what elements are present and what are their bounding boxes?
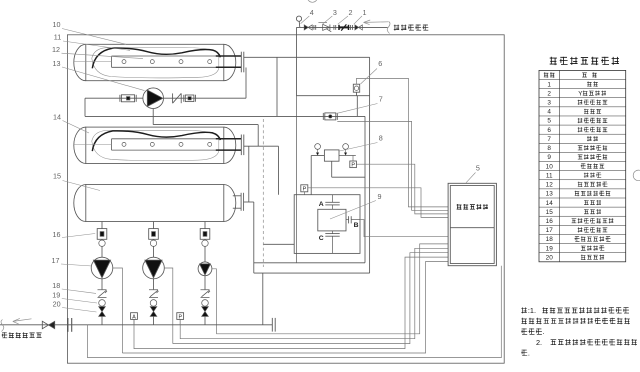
tank 14 bladder pressure tank	[74, 127, 244, 163]
pipe break symbol top	[387, 22, 390, 34]
leader 13	[62, 67, 145, 91]
tank 10 bladder pressure tank	[74, 44, 244, 80]
dashed supply-scope line	[262, 119, 264, 267]
svg-text:2.: 2.	[536, 338, 542, 347]
leader 2	[338, 16, 348, 24]
gauge on valve8 left	[315, 144, 321, 156]
leader 4	[301, 16, 310, 24]
cabinet label 变频控制柜	[457, 204, 488, 210]
label 4	[310, 8, 314, 17]
wire pump1 motor	[113, 268, 123, 353]
leader 3	[323, 16, 333, 24]
control cabinet inner	[450, 186, 494, 264]
svg-text:8: 8	[547, 145, 551, 152]
svg-text:18: 18	[52, 281, 60, 290]
check valve N	[173, 93, 182, 103]
pipe tank2 to tank3 link	[248, 146, 250, 202]
svg-text:C: C	[319, 235, 324, 242]
port B marker	[354, 222, 359, 229]
svg-text:B: B	[354, 222, 359, 229]
pipe tank15 outlet	[244, 202, 263, 325]
svg-text:5: 5	[547, 118, 551, 125]
pipe tank2 to manifold	[244, 145, 279, 147]
supply pipe to mains	[297, 27, 388, 96]
port C marker	[319, 235, 324, 242]
wire pump3 motor	[212, 269, 217, 334]
svg-text:12: 12	[52, 45, 60, 54]
svg-text:11: 11	[546, 172, 553, 179]
svg-text:9: 9	[547, 154, 551, 161]
svg-text:1: 1	[547, 81, 551, 88]
pressure gauge 4	[296, 16, 301, 27]
leader 7	[337, 104, 378, 114]
svg-text:11: 11	[54, 33, 61, 42]
svg-text:P: P	[303, 187, 307, 193]
Y-strainer 2	[318, 23, 331, 32]
wire valve7 to cabinet	[337, 121, 448, 210]
svg-text:6: 6	[547, 127, 551, 134]
svg-text:.: .	[543, 327, 545, 336]
wire run 2	[180, 248, 448, 338]
wire pump2 motor	[164, 268, 173, 344]
svg-text:3: 3	[333, 8, 337, 17]
sensor 6 box	[353, 84, 359, 96]
gauge on valve8 right	[343, 144, 349, 156]
svg-text:14: 14	[53, 112, 61, 121]
port C connection	[325, 231, 339, 254]
discharge header pipe	[0, 324, 272, 326]
pipe valve8 drain	[332, 161, 365, 177]
svg-text:3: 3	[547, 100, 551, 107]
svg-text:20: 20	[53, 300, 61, 309]
device 9 body	[318, 209, 346, 231]
pipe break symbol bottom	[1, 320, 4, 332]
pipe manifold right drop	[369, 57, 371, 273]
label 14	[53, 112, 61, 121]
flexible joint left of pump	[120, 95, 136, 102]
svg-text:6: 6	[378, 59, 382, 68]
pipe manifold drop upper	[276, 57, 278, 116]
wall flange pair	[68, 318, 72, 332]
port B connection	[346, 216, 360, 223]
svg-text:13: 13	[53, 59, 61, 68]
leader 17	[61, 264, 92, 266]
label 2	[349, 8, 353, 17]
svg-text:2: 2	[349, 8, 353, 17]
svg-text:4: 4	[310, 8, 314, 17]
svg-text:17: 17	[546, 227, 554, 234]
label 18	[52, 281, 60, 290]
valve 8 body	[324, 150, 339, 161]
sensor P box on header	[177, 313, 184, 325]
notes text	[521, 306, 637, 357]
pump 13 impeller	[147, 90, 163, 106]
pump stack 3 small pump (items 16-20)	[198, 222, 212, 325]
port A marker	[319, 201, 324, 208]
svg-text:14: 14	[546, 200, 554, 207]
port A connection	[325, 195, 339, 210]
pipe manifold drop lower	[278, 146, 280, 195]
svg-text:P: P	[351, 162, 355, 168]
pipe manifold bottom	[297, 95, 370, 97]
pump 13 circle	[143, 88, 164, 109]
flow arrow to users	[13, 318, 32, 324]
wire valve8 P to cabinet	[356, 164, 448, 214]
leader 9	[330, 201, 376, 220]
svg-text:15: 15	[53, 172, 61, 181]
leader 18	[62, 289, 96, 293]
leader 10	[62, 29, 126, 45]
svg-text:8: 8	[379, 133, 383, 142]
table grid	[539, 70, 626, 261]
svg-text:9: 9	[378, 192, 382, 201]
pipe pump discharge	[164, 97, 247, 99]
leader 19	[62, 299, 97, 304]
tank 15 nozzle	[233, 193, 244, 211]
pipe pump bottom loop	[153, 109, 258, 147]
svg-text:19: 19	[52, 291, 60, 300]
label 13	[53, 59, 61, 68]
svg-text:.: .	[528, 348, 530, 357]
label 6	[378, 59, 382, 68]
svg-text::1.: :1.	[528, 306, 536, 315]
header end flange	[272, 318, 275, 332]
svg-text:5: 5	[476, 163, 480, 172]
svg-text:A: A	[319, 201, 324, 208]
pipe suction riser	[356, 96, 358, 117]
svg-text:7: 7	[379, 94, 383, 103]
svg-text:4: 4	[547, 109, 551, 116]
valve 4 on supply	[355, 25, 362, 30]
label 20	[53, 300, 61, 309]
tank 15 shell	[74, 185, 236, 222]
equipment boundary frame	[67, 35, 504, 363]
svg-text:12: 12	[546, 182, 554, 189]
pipe tank1 down to pump	[245, 68, 247, 99]
label 16	[53, 230, 61, 239]
valve 1 on supply	[304, 25, 312, 30]
label 12	[52, 45, 60, 54]
leader 15	[63, 181, 101, 191]
pipe loop 9 enclosure	[294, 195, 360, 254]
pipe pump suction	[85, 98, 143, 116]
flow arrow supply	[364, 20, 389, 25]
leader 16	[62, 234, 95, 238]
pump stack 1 (items 16-20)	[91, 222, 113, 325]
wire run 5	[122, 262, 448, 354]
P box near component 9	[301, 185, 308, 195]
leader 11	[63, 41, 130, 50]
svg-text:18: 18	[546, 236, 554, 243]
wire port B to cabinet	[360, 220, 448, 237]
label 3	[333, 8, 337, 17]
leader 5	[466, 173, 476, 183]
table rows 1-20	[546, 81, 614, 261]
flange pair	[314, 25, 316, 30]
leader 12	[62, 53, 144, 58]
sensor A box on header	[131, 313, 138, 325]
suction line horizontal	[85, 115, 365, 117]
top edge reference circle	[307, 0, 317, 2]
label 11	[54, 33, 61, 42]
leader 6	[361, 69, 378, 85]
svg-text:Y: Y	[578, 90, 582, 97]
flange pair	[334, 25, 336, 30]
pump stack 2 (items 16-20)	[143, 222, 165, 325]
svg-text:10: 10	[546, 163, 554, 170]
svg-text:13: 13	[546, 191, 554, 198]
label 15	[53, 172, 61, 181]
svg-text:20: 20	[546, 254, 554, 261]
pipe stub left of enclosure	[263, 243, 294, 245]
label 7	[379, 94, 383, 103]
backflow preventer 3	[339, 24, 349, 30]
wire run 4	[134, 257, 448, 349]
label 19	[52, 291, 60, 300]
pipe vertical x365	[364, 116, 366, 262]
pipe tank1 to manifold	[244, 56, 370, 58]
svg-text:16: 16	[546, 218, 554, 225]
svg-text:19: 19	[546, 245, 554, 252]
control cabinet outer	[448, 183, 496, 265]
flange pair	[351, 25, 353, 30]
label 1	[363, 8, 367, 17]
pipe drain header upper	[254, 262, 365, 264]
label text 接供水管网	[394, 25, 429, 31]
wire run 6	[88, 266, 502, 358]
valve 7 body	[323, 113, 337, 120]
leader 8	[340, 143, 378, 152]
label text 接至用户管网	[2, 332, 42, 338]
wire P9 to cabinet	[308, 188, 448, 218]
flexible joint right of pump	[184, 95, 196, 102]
svg-text:7: 7	[547, 136, 551, 143]
pipe supply drop thin	[296, 96, 298, 263]
pipe valve8 right	[339, 155, 356, 157]
label 10	[53, 20, 61, 29]
exit valve	[42, 321, 54, 328]
svg-text:16: 16	[53, 230, 61, 239]
leader 20	[62, 308, 96, 313]
pipe drain header lower	[254, 272, 370, 274]
label 8	[379, 133, 383, 142]
label 9	[378, 192, 382, 201]
wire run 1	[216, 244, 448, 334]
wire sensor6 to cabinet	[357, 78, 449, 207]
table header row	[544, 72, 597, 78]
svg-text:2: 2	[547, 90, 551, 97]
svg-text:1: 1	[363, 8, 367, 17]
leader 14	[63, 121, 90, 134]
svg-text:17: 17	[52, 256, 60, 265]
svg-text:15: 15	[546, 209, 554, 216]
label 5	[476, 163, 480, 172]
svg-text:10: 10	[53, 20, 61, 29]
right edge reference circle	[633, 170, 640, 181]
pipe valve8 left	[311, 156, 324, 195]
wire run 3	[173, 253, 448, 344]
table title 设备组成名称表	[550, 57, 619, 65]
leader 1	[354, 16, 362, 24]
label 17	[52, 256, 60, 265]
pressure tap P box on valve8	[350, 156, 357, 169]
